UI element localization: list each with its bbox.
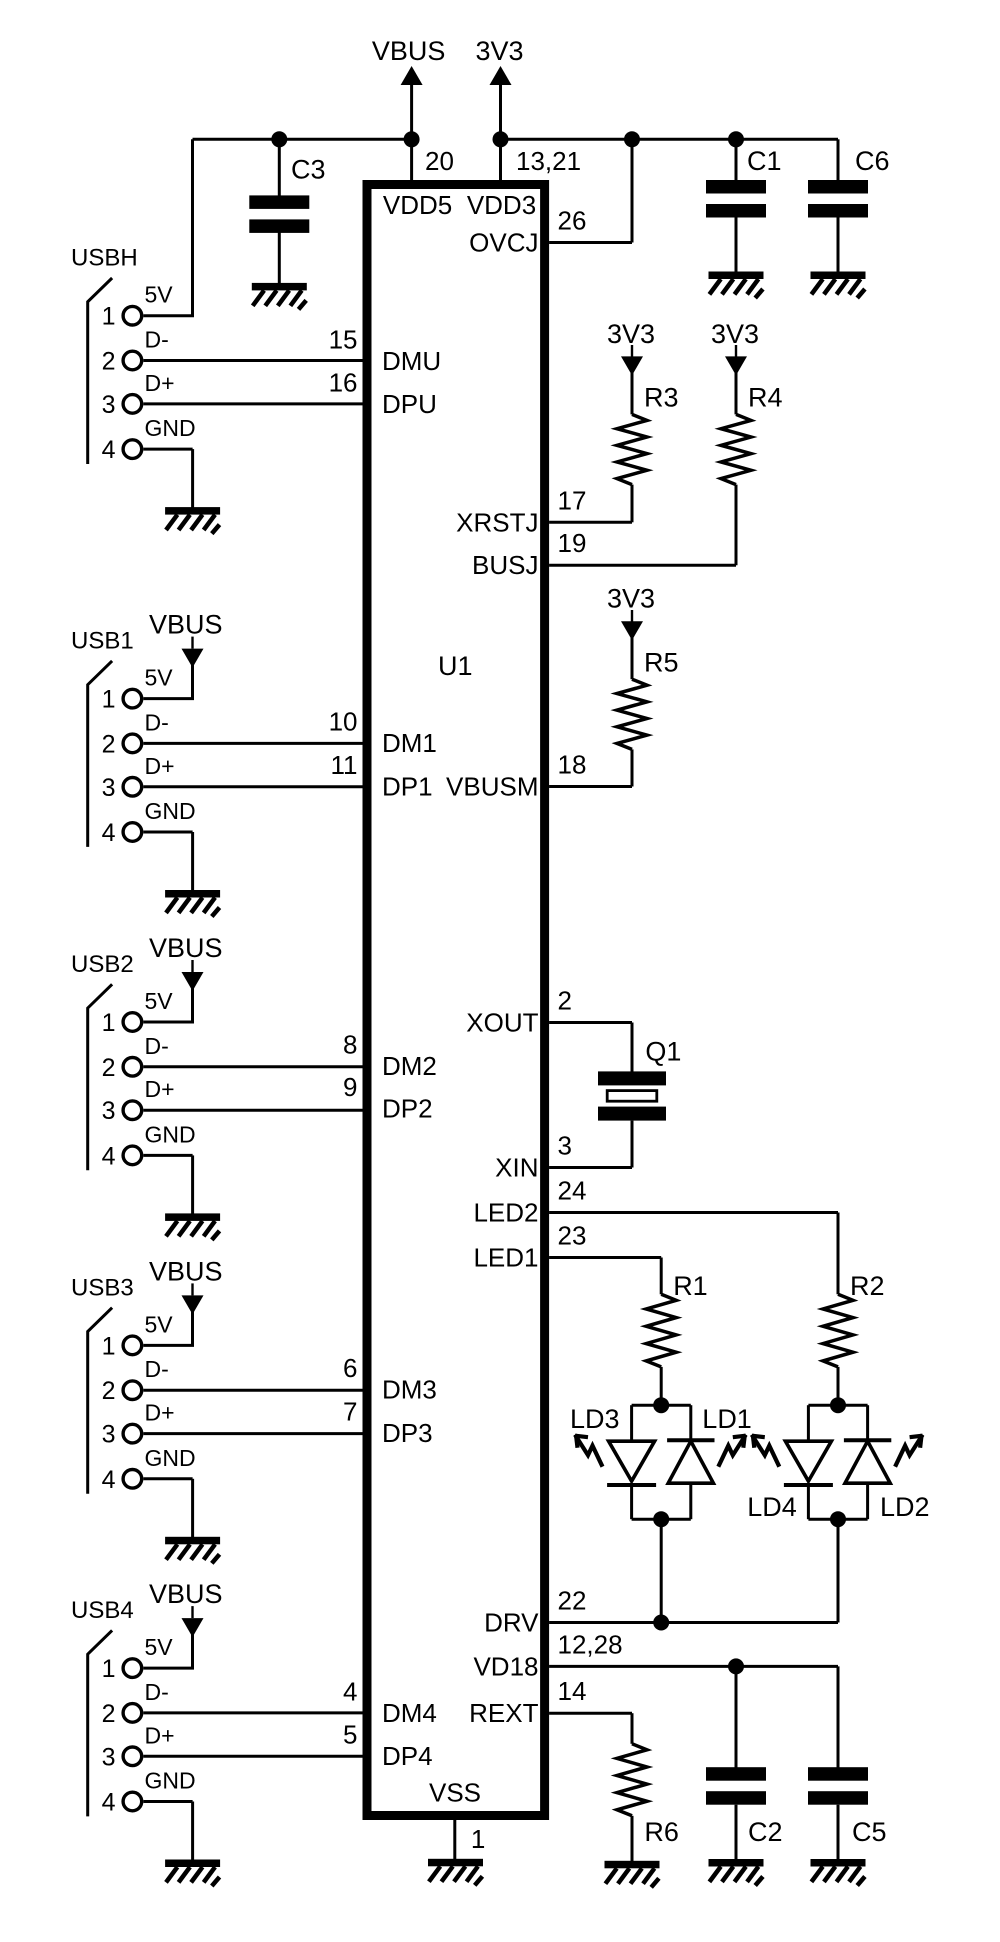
wire USB1 D+ to IC (143, 785, 362, 788)
wire R1 lower lead (660, 1367, 663, 1405)
power arrow VBUS (401, 66, 423, 85)
wire OVCJ riser (631, 139, 634, 242)
svg-text:USBH: USBH (71, 245, 138, 272)
wire LD2 cathode branch (866, 1405, 869, 1440)
pin 3 circle of USB3 (123, 1424, 142, 1443)
svg-text:5V: 5V (145, 988, 174, 1014)
pin 2 circle of USB4 (123, 1704, 142, 1723)
svg-text:DM2: DM2 (382, 1051, 437, 1081)
capacitor C1 (706, 180, 766, 218)
svg-text:XIN: XIN (495, 1153, 538, 1183)
wire USB1 GND horizontal (143, 831, 192, 834)
pin 1 circle of USB1 (123, 689, 142, 708)
svg-text:U1: U1 (438, 651, 473, 681)
power arrow VBUS at USB3 (182, 1295, 204, 1314)
svg-text:VDD3: VDD3 (467, 190, 536, 220)
wire LED1 to R1 column (549, 1256, 661, 1259)
wire XOUT to Q1 column (549, 1021, 632, 1024)
resistor R6 (617, 1744, 647, 1816)
svg-text:DRV: DRV (484, 1608, 539, 1638)
svg-text:5V: 5V (145, 282, 174, 308)
svg-text:2: 2 (102, 1054, 116, 1082)
wire VBUS arrow stem at USB3 (191, 1283, 193, 1295)
svg-text:VBUS: VBUS (149, 1256, 223, 1286)
svg-text:2: 2 (102, 348, 116, 376)
ground below R6 (605, 1861, 660, 1888)
wire USB4 D+ to IC (143, 1755, 362, 1758)
ground below USBH (165, 507, 220, 533)
svg-text:2: 2 (558, 986, 572, 1016)
op-amp U1 body (USB hub IC rectangle) (367, 185, 545, 1816)
pin 2 circle of USB3 (123, 1381, 142, 1400)
wire VBUS arrow stem at USB1 (191, 637, 193, 649)
svg-text:20: 20 (425, 146, 454, 176)
wire USB3 pin1 to VBUS (143, 1344, 194, 1347)
wire USB3 GND horizontal (143, 1477, 192, 1480)
svg-text:17: 17 (558, 485, 587, 515)
wire XIN to Q1 column (549, 1166, 632, 1169)
capacitor C6 (808, 180, 868, 218)
wire C2 lower lead (735, 1805, 738, 1860)
pin 4 circle of USB1 (123, 823, 142, 842)
wire LED pair top rail (LD4/LD2) (808, 1404, 867, 1407)
svg-text:DM1: DM1 (382, 728, 437, 758)
wire LD1 cathode branch (689, 1405, 692, 1440)
svg-text:LD3: LD3 (570, 1404, 620, 1434)
svg-text:LED1: LED1 (473, 1243, 538, 1273)
wire 3V3 stem above R3 (631, 345, 633, 357)
ground below USB2 (165, 1213, 220, 1240)
svg-text:D-: D- (145, 709, 169, 735)
wire DRV to IC (549, 1621, 838, 1624)
LED LD4 (cathode down) (784, 1441, 833, 1485)
svg-text:DM3: DM3 (382, 1375, 437, 1405)
svg-text:USB3: USB3 (71, 1274, 134, 1301)
wire LD4 cathode branch (807, 1485, 810, 1519)
wire USB2 GND drop (191, 1155, 194, 1214)
wire USB2 D+ to IC (143, 1109, 362, 1112)
wire LED pair bottom rail (LD4/LD2) (808, 1518, 867, 1521)
LED LD3 (cathode down) (607, 1441, 656, 1485)
svg-text:C3: C3 (291, 154, 326, 184)
svg-text:3: 3 (102, 1743, 116, 1771)
svg-text:3: 3 (102, 1421, 116, 1449)
svg-text:DP3: DP3 (382, 1418, 433, 1448)
wire USBH GND drop (191, 449, 194, 508)
wire R3 to IC (549, 521, 632, 524)
svg-text:C6: C6 (855, 146, 890, 176)
svg-text:GND: GND (145, 1768, 196, 1794)
wire C5 lower lead (837, 1805, 840, 1860)
wire USB1 D- to IC (143, 742, 362, 745)
svg-text:R1: R1 (673, 1271, 708, 1301)
svg-text:7: 7 (343, 1397, 357, 1427)
svg-text:D+: D+ (145, 1076, 175, 1102)
svg-text:16: 16 (329, 368, 358, 398)
svg-text:VBUS: VBUS (149, 1579, 223, 1609)
svg-text:D+: D+ (145, 753, 175, 779)
junction DRV and LD3/LD1 (653, 1615, 669, 1631)
resistor R5 (617, 679, 647, 749)
svg-text:LED2: LED2 (473, 1198, 538, 1228)
svg-text:1: 1 (102, 1009, 116, 1037)
wire R2 lower lead (837, 1367, 840, 1405)
svg-text:6: 6 (343, 1353, 357, 1383)
svg-text:4: 4 (102, 436, 116, 464)
svg-text:GND: GND (145, 415, 196, 441)
svg-text:REXT: REXT (469, 1698, 538, 1728)
pin 2 circle of USBH (123, 351, 142, 370)
power arrow VBUS at USB1 (182, 649, 204, 668)
svg-text:14: 14 (558, 1676, 587, 1706)
svg-text:1: 1 (471, 1824, 485, 1854)
svg-text:4: 4 (102, 819, 116, 847)
resistor R3 (617, 414, 647, 484)
pin 3 circle of USBH (123, 395, 142, 414)
junction C3 tap (271, 131, 287, 147)
svg-text:13,21: 13,21 (516, 146, 581, 176)
svg-text:DM4: DM4 (382, 1698, 437, 1728)
svg-text:VD18: VD18 (473, 1651, 538, 1681)
wire USB1 pin1 to VBUS (143, 697, 194, 700)
wire pin13-21 riser (499, 139, 502, 185)
svg-text:Q1: Q1 (645, 1037, 681, 1067)
wire USB3 D+ to IC (143, 1432, 362, 1435)
svg-text:R5: R5 (644, 647, 679, 677)
svg-text:2: 2 (102, 1700, 116, 1728)
svg-text:GND: GND (145, 1445, 196, 1471)
svg-text:12,28: 12,28 (558, 1629, 623, 1659)
wire R6 lower lead (631, 1816, 634, 1862)
svg-text:D+: D+ (145, 1722, 175, 1748)
svg-text:GND: GND (145, 1121, 196, 1147)
wire R1 upper lead (660, 1258, 663, 1295)
svg-text:15: 15 (329, 324, 358, 354)
wire USB3 D- to IC (143, 1389, 362, 1392)
pin 4 circle of USB2 (123, 1146, 142, 1165)
capacitor C2 (706, 1767, 766, 1805)
svg-text:R3: R3 (644, 383, 679, 413)
wire 3V3 stem above R5 (631, 610, 633, 622)
wire VBUS arrow to pin1 corner at USB2 (191, 988, 194, 1022)
wire LED pair bottom rail (LD3/LD1) (632, 1518, 691, 1521)
svg-text:DP2: DP2 (382, 1094, 433, 1124)
wire LD3 anode branch (630, 1405, 633, 1442)
svg-text:XRSTJ: XRSTJ (456, 507, 538, 537)
wire USB1 GND drop (191, 832, 194, 891)
wire VBUS riser to USBH pin1 (191, 139, 194, 315)
crystal Q1 (598, 1071, 666, 1120)
wire VBUS arrow to pin1 corner at USB3 (191, 1311, 194, 1345)
svg-text:LD2: LD2 (880, 1492, 930, 1522)
wire R4 lower lead (735, 485, 738, 566)
wire USBH GND horizontal (143, 448, 192, 451)
wire C1 lower lead (735, 218, 738, 274)
wire REXT to R6 column (549, 1712, 632, 1715)
ground below C5 (811, 1859, 866, 1886)
svg-text:3V3: 3V3 (607, 584, 655, 614)
wire LD4/LD2 bottom to DRV (837, 1519, 840, 1622)
wire VBUS arrow to pin1 corner at USB4 (191, 1634, 194, 1668)
pin 3 circle of USB2 (123, 1101, 142, 1120)
svg-text:USB4: USB4 (71, 1597, 134, 1624)
wire C6 lower lead (837, 218, 840, 274)
wire USB2 D- to IC (143, 1065, 362, 1068)
pin 2 circle of USB1 (123, 734, 142, 753)
wire USB2 pin1 to VBUS (143, 1021, 194, 1024)
svg-text:VBUS: VBUS (372, 36, 446, 66)
svg-text:4: 4 (102, 1466, 116, 1494)
connector USB1 bracket (88, 661, 112, 847)
wire USBH D+ to IC (143, 402, 362, 405)
wire USB3 GND drop (191, 1479, 194, 1538)
wire OVCJ to riser (549, 241, 632, 244)
power arrow 3V3 at R5 (621, 621, 643, 640)
svg-text:OVCJ: OVCJ (469, 228, 538, 258)
svg-text:DMU: DMU (382, 346, 441, 376)
svg-text:3V3: 3V3 (475, 36, 523, 66)
wire Q1 lower lead (631, 1121, 634, 1168)
svg-text:D-: D- (145, 1356, 169, 1382)
pin 2 circle of USB2 (123, 1058, 142, 1077)
svg-text:3: 3 (558, 1131, 572, 1161)
connector USBH bracket (88, 278, 112, 464)
svg-text:11: 11 (331, 750, 358, 780)
wire USB4 GND horizontal (143, 1800, 192, 1803)
wire C2 upper lead (735, 1666, 738, 1768)
wire VSS stub (453, 1820, 456, 1860)
junction bottom of LD3/LD1 (653, 1511, 669, 1527)
power arrow VBUS at USB2 (182, 972, 204, 991)
wire USBH D- to IC (143, 359, 362, 362)
wire R2 upper lead (837, 1213, 840, 1295)
svg-text:D+: D+ (145, 1400, 175, 1426)
junction VD18 and C2 (728, 1658, 744, 1674)
pin 1 circle of USB2 (123, 1013, 142, 1032)
svg-text:9: 9 (343, 1072, 357, 1102)
svg-text:3: 3 (102, 774, 116, 802)
svg-text:3: 3 (102, 1097, 116, 1125)
svg-text:R4: R4 (748, 383, 783, 413)
junction 3V3 pin13-21 (493, 131, 509, 147)
ground below C3 (252, 283, 307, 310)
svg-text:XOUT: XOUT (466, 1008, 538, 1038)
svg-text:LD1: LD1 (702, 1404, 752, 1434)
wire 3V3 stem above R4 (735, 345, 737, 357)
svg-text:C1: C1 (747, 146, 782, 176)
junction top of LD4/LD2 (830, 1397, 846, 1413)
svg-text:1: 1 (102, 1655, 116, 1683)
svg-text:1: 1 (102, 686, 116, 714)
wire 3V3 arrow stem (499, 83, 502, 139)
svg-text:DP4: DP4 (382, 1741, 433, 1771)
svg-text:VBUS: VBUS (149, 610, 223, 640)
wire USB4 pin1 to VBUS (143, 1667, 194, 1670)
svg-text:5: 5 (343, 1719, 357, 1749)
wire VBUS arrow to pin1 corner at USB1 (191, 665, 194, 699)
svg-text:3V3: 3V3 (711, 319, 759, 349)
wire R4 upper lead (735, 372, 738, 414)
wire R5 upper lead (631, 637, 634, 679)
svg-text:VBUS: VBUS (149, 933, 223, 963)
junction C1 tap (728, 131, 744, 147)
svg-text:USB2: USB2 (71, 951, 134, 978)
junction VBUS pin20 (404, 131, 420, 147)
svg-text:24: 24 (558, 1176, 587, 1206)
wire LED2 to R2 column (549, 1211, 838, 1214)
svg-text:4: 4 (102, 1142, 116, 1170)
pin 1 circle of USB4 (123, 1659, 142, 1678)
svg-text:18: 18 (558, 750, 587, 780)
svg-text:5V: 5V (145, 1634, 174, 1660)
junction top of LD3/LD1 (653, 1397, 669, 1413)
wire R5 lower lead (631, 749, 634, 786)
svg-text:VSS: VSS (429, 1778, 481, 1808)
svg-text:26: 26 (558, 206, 587, 236)
pin 4 circle of USBH (123, 440, 142, 459)
junction OVCJ riser (624, 131, 640, 147)
svg-text:R6: R6 (644, 1817, 679, 1847)
LED LD2 (cathode up) (844, 1440, 891, 1483)
ground below C1 (709, 272, 764, 299)
svg-text:5V: 5V (145, 1311, 174, 1337)
power arrow 3V3 at R4 (725, 356, 747, 375)
wire VBUS bus (193, 138, 412, 141)
wire 3V3 bus (501, 138, 839, 141)
svg-text:D+: D+ (145, 370, 175, 396)
svg-text:10: 10 (329, 706, 358, 736)
svg-text:3: 3 (102, 391, 116, 419)
wire LD3/LD1 bottom to DRV (660, 1519, 663, 1622)
ground below USB3 (165, 1537, 220, 1564)
pin 1 circle of USB3 (123, 1336, 142, 1355)
svg-text:4: 4 (102, 1789, 116, 1817)
ground below C6 (811, 272, 866, 299)
svg-text:D-: D- (145, 1679, 169, 1705)
pin 1 circle of USBH (123, 306, 142, 325)
wire LD1 anode branch (689, 1483, 692, 1519)
ground below USB1 (165, 890, 220, 917)
wire VBUS arrow stem (410, 83, 413, 139)
svg-text:5V: 5V (145, 665, 174, 691)
wire C5 upper lead (837, 1666, 840, 1768)
capacitor C5 (808, 1767, 868, 1805)
emission arrows of LD1 (718, 1435, 746, 1467)
wire VBUS arrow stem at USB4 (191, 1606, 193, 1618)
svg-text:C5: C5 (852, 1817, 887, 1847)
resistor R4 (721, 414, 751, 484)
svg-text:2: 2 (102, 1377, 116, 1405)
svg-text:LD4: LD4 (747, 1492, 797, 1522)
svg-text:USB1: USB1 (71, 628, 134, 655)
svg-text:DP1: DP1 (382, 771, 433, 801)
wire C1 upper lead (735, 139, 738, 181)
svg-text:1: 1 (102, 1332, 116, 1360)
connector USB2 bracket (88, 984, 112, 1170)
capacitor C3 (249, 195, 309, 233)
svg-text:19: 19 (558, 528, 587, 558)
svg-text:VBUSM: VBUSM (446, 772, 538, 802)
wire USB2 GND horizontal (143, 1154, 192, 1157)
svg-text:BUSJ: BUSJ (472, 550, 538, 580)
connector USB3 bracket (88, 1308, 112, 1494)
wire LD3 cathode branch (630, 1485, 633, 1519)
wire pin20 riser (410, 139, 413, 185)
connector USB4 bracket (88, 1630, 112, 1816)
wire C3 upper lead (278, 139, 281, 196)
wire R6 upper lead (631, 1713, 634, 1744)
svg-text:4: 4 (343, 1677, 357, 1707)
svg-text:23: 23 (558, 1221, 587, 1251)
svg-text:D-: D- (145, 1033, 169, 1059)
wire Q1 upper lead (631, 1023, 634, 1073)
wire VD18 to C5 column (549, 1665, 838, 1668)
wire C6 drop from bus (837, 139, 840, 181)
wire USB4 GND drop (191, 1802, 194, 1861)
power arrow 3V3 at R3 (621, 356, 643, 375)
svg-text:22: 22 (558, 1586, 587, 1616)
ground below C2 (709, 1859, 764, 1886)
pin 4 circle of USB4 (123, 1792, 142, 1811)
LED LD1 (cathode up) (667, 1440, 714, 1483)
emission arrows of LD4 (752, 1435, 780, 1467)
svg-text:GND: GND (145, 798, 196, 824)
resistor R2 (823, 1294, 853, 1367)
svg-text:1: 1 (102, 303, 116, 331)
power arrow VBUS at USB4 (182, 1618, 204, 1637)
svg-text:C2: C2 (748, 1817, 783, 1847)
wire USBH pin1 to VBUS (143, 314, 194, 317)
svg-text:8: 8 (343, 1030, 357, 1060)
ground below USB4 (165, 1860, 220, 1887)
wire R3 upper lead (631, 372, 634, 414)
svg-text:VDD5: VDD5 (383, 190, 452, 220)
wire USB4 D- to IC (143, 1711, 362, 1714)
emission arrows of LD3 (575, 1435, 603, 1467)
junction bottom of LD4/LD2 (830, 1511, 846, 1527)
svg-text:DPU: DPU (382, 389, 437, 419)
wire VBUSM to IC (549, 785, 632, 788)
wire R3 lower lead (631, 485, 634, 523)
pin 4 circle of USB3 (123, 1470, 142, 1489)
resistor R1 (646, 1294, 676, 1367)
pin 3 circle of USB1 (123, 778, 142, 797)
svg-text:3V3: 3V3 (607, 319, 655, 349)
wire R4 to IC (549, 564, 736, 567)
wire LD4 anode branch (807, 1405, 810, 1442)
wire VBUS arrow stem at USB2 (191, 960, 193, 972)
emission arrows of LD2 (895, 1435, 923, 1467)
svg-text:R2: R2 (850, 1271, 885, 1301)
svg-text:D-: D- (145, 327, 169, 353)
wire C3 lower lead (278, 231, 281, 284)
wire LD2 anode branch (866, 1483, 869, 1519)
wire LED pair top rail (LD3/LD1) (632, 1404, 691, 1407)
pin 3 circle of USB4 (123, 1747, 142, 1766)
ground below VSS (428, 1859, 483, 1886)
svg-text:2: 2 (102, 730, 116, 758)
power arrow 3V3 (490, 66, 512, 85)
